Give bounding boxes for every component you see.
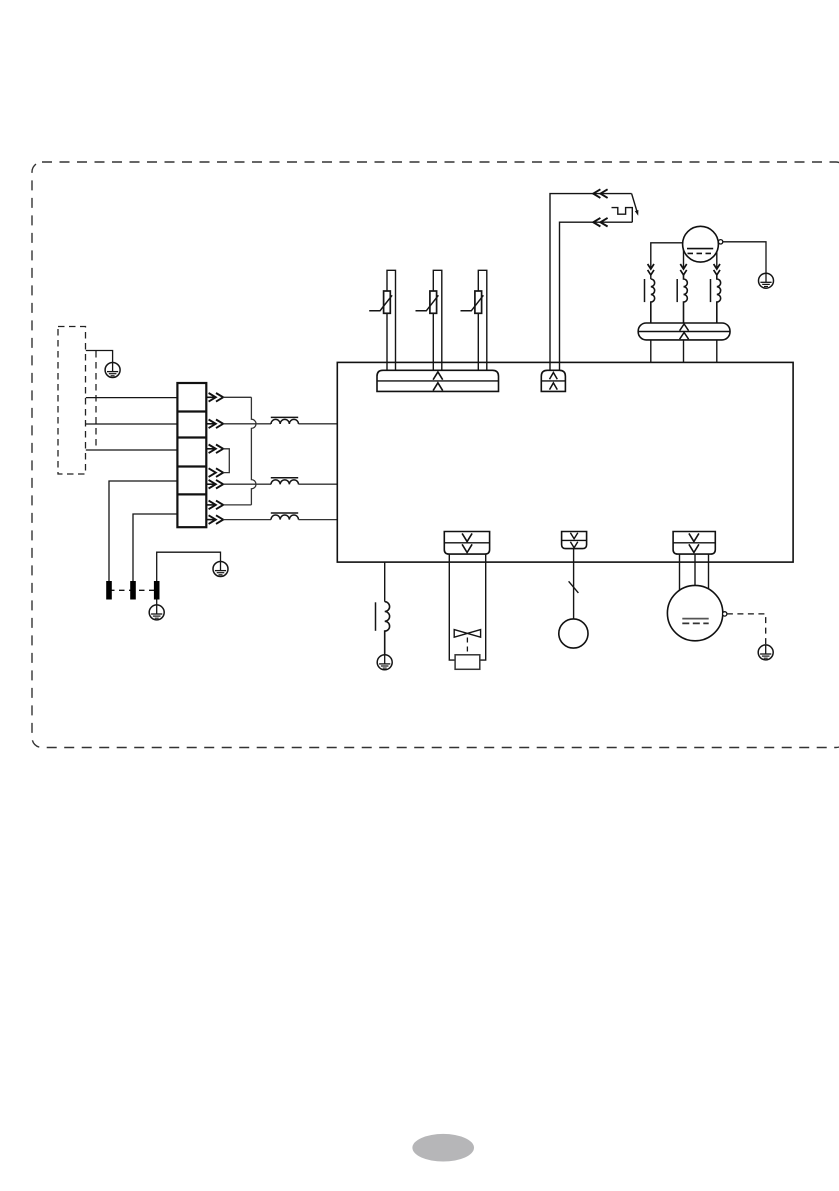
wire phase N to terminal 2 <box>86 423 178 425</box>
thermistor connector CN1 <box>377 370 499 391</box>
terminal block TB <box>177 383 206 527</box>
4-way valve lead left <box>449 554 455 660</box>
chevrons on lower wire <box>593 218 600 227</box>
ground (reactor) <box>377 655 392 670</box>
dashed enclosure border <box>32 162 839 748</box>
jumper wire between arrows 3 and 4 <box>223 449 229 473</box>
compressor terminal circle <box>723 612 727 616</box>
connector arrow stub terminal 5b <box>206 519 216 521</box>
ground (power inlet) <box>105 363 120 378</box>
connector arrow stub terminal 2 <box>206 423 216 425</box>
ground (fan motor) <box>759 273 774 288</box>
wire terminal5b to line filter 3 <box>223 519 271 521</box>
fan winding plug arrows 2 <box>680 264 686 269</box>
fan motor winding coil 3 <box>711 275 721 323</box>
wire terminal5a to bus <box>223 504 251 506</box>
fan motor inner solid line <box>687 248 713 250</box>
valve dashed stem <box>466 638 468 655</box>
page number oval <box>412 1134 474 1162</box>
pressure switch connector CN2 <box>541 370 565 391</box>
wire filter2 to main board <box>299 483 338 485</box>
pressure switch blade <box>632 194 638 213</box>
chevrons on upper wire <box>593 189 600 198</box>
wire pin3 to lower ground <box>156 600 158 605</box>
mains plug pin 3 <box>154 581 160 600</box>
wires fan connector to board <box>650 340 652 363</box>
dashed link between mains pins <box>109 589 157 591</box>
pressure switch wire upper <box>550 194 632 371</box>
fan motor terminal circle <box>718 240 722 244</box>
connector arrow stub terminal 4 <box>206 483 216 485</box>
wire mains pin1 up to terminal 4 <box>109 481 177 581</box>
cable boundary dashed line <box>95 351 97 450</box>
mains plug pin 1 <box>106 581 112 600</box>
protector slash <box>569 581 579 593</box>
mains plug pin 2 <box>130 581 136 600</box>
fan motor M1 body <box>683 226 719 262</box>
auxiliary motor body <box>559 619 588 648</box>
compressor M2 body <box>667 585 722 640</box>
fan motor inner dashed line <box>688 252 714 254</box>
wire mains pin3 to earth <box>157 552 221 581</box>
wire terminal1 to bus <box>223 396 251 398</box>
connector CN-B <box>562 532 587 549</box>
compressor inner solid line <box>682 618 708 620</box>
fan motor connector bar <box>638 323 730 340</box>
fan motor winding coil 2 <box>677 275 687 323</box>
wire: power box to inlet ground <box>86 351 113 363</box>
fan motor left wire <box>651 243 683 279</box>
thermistor TH2 <box>416 270 442 370</box>
ground (below plug) <box>149 605 164 620</box>
line filter inductor 1 <box>271 417 299 424</box>
power supply dashed box <box>58 327 86 475</box>
4-way valve bowtie <box>454 630 480 638</box>
fan motor winding coil 1 <box>645 279 655 323</box>
connector CN-A (4-way valve) <box>444 532 489 555</box>
compressor feed wires <box>679 554 681 600</box>
pressure switch wire lower <box>560 222 633 370</box>
thermistor TH3 <box>461 270 487 370</box>
dashed wire compressor to ground <box>727 614 766 645</box>
reactor feed wire <box>384 562 386 602</box>
pressure switch contact step <box>612 208 633 223</box>
connector arrow jumper lower <box>209 468 216 477</box>
reactor coil <box>376 602 390 655</box>
fan motor feed wires (masked by circle) <box>683 246 685 269</box>
line filter inductor 2 <box>271 478 299 485</box>
connector arrow stub terminal 1 <box>206 396 216 398</box>
line filter inductor 3 <box>271 513 299 520</box>
wire terminal2 to line filter 1 <box>223 423 271 425</box>
wire mains pin2 up to terminal 5 <box>133 514 177 581</box>
bus wire with crossover hops <box>251 397 256 505</box>
wire filter3 to main board <box>299 519 338 521</box>
main control board box <box>337 362 793 562</box>
ground (compressor) <box>758 645 773 660</box>
connector CN-C (compressor) <box>673 532 715 555</box>
wire filter1 to main board <box>299 423 338 425</box>
wire fan terminal to ground <box>723 242 766 274</box>
ground (near terminal block) <box>213 562 228 577</box>
thermistor TH1 <box>369 270 395 370</box>
wire phase L to terminal 1 <box>86 397 178 399</box>
wire terminal4 to line filter 2 <box>223 483 271 485</box>
fan winding plug arrows 1 <box>648 264 654 269</box>
auxiliary motor wire <box>573 549 575 619</box>
compressor inner dashed line <box>682 622 708 624</box>
connector arrow stub terminal 3 <box>206 448 216 450</box>
blade arrowhead <box>635 210 639 216</box>
connector arrow stub terminal 5a <box>206 504 216 506</box>
wire phase to terminal 3 <box>86 449 178 451</box>
fan winding plug arrows 3 <box>714 264 720 269</box>
valve solenoid body <box>455 655 480 670</box>
4-way valve lead right <box>480 554 486 660</box>
